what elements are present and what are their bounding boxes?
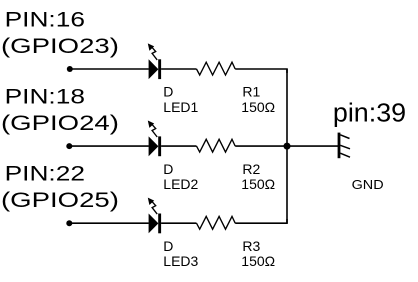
svg-text:LED2: LED2 — [163, 176, 198, 192]
wire bus to ground — [287, 145, 338, 147]
label R2 150ohm — [241, 161, 275, 192]
wire R1 to bus (with corner) — [235, 69, 287, 73]
label D LED2 — [163, 161, 198, 192]
svg-text:150Ω: 150Ω — [241, 176, 275, 192]
svg-text:150Ω: 150Ω — [241, 253, 275, 269]
svg-text:PIN:16: PIN:16 — [5, 8, 85, 32]
LED D LED3 — [148, 198, 161, 234]
svg-text:pin:39: pin:39 — [333, 98, 406, 127]
svg-text:150Ω: 150Ω — [241, 99, 275, 115]
resistor R2 — [197, 139, 236, 152]
svg-text:GND: GND — [352, 178, 384, 192]
svg-text:D: D — [163, 84, 173, 100]
wire R2 to bus — [235, 145, 287, 147]
node PIN:16 label — [1, 8, 119, 58]
node PIN:22 label — [1, 162, 119, 212]
resistor R1 — [197, 62, 236, 75]
wire LED2 cathode to R2 — [161, 145, 196, 147]
svg-text:LED1: LED1 — [163, 99, 198, 115]
label D LED3 — [163, 238, 198, 269]
wire LED3 cathode to R3 — [161, 222, 196, 224]
node pin:39 label — [333, 98, 406, 127]
node PIN:18 label — [1, 85, 119, 135]
svg-text:D: D — [163, 161, 173, 177]
svg-text:(GPIO23): (GPIO23) — [1, 35, 119, 58]
junction dot bus to GND — [284, 143, 291, 150]
junction dot GPIO25 — [66, 220, 72, 226]
label R3 150ohm — [241, 238, 275, 269]
svg-text:(GPIO24): (GPIO24) — [1, 112, 119, 135]
wire LED1 cathode to R1 — [161, 68, 196, 70]
junction dot GPIO23 — [67, 66, 73, 72]
svg-text:R1: R1 — [242, 84, 260, 100]
LED D LED2 — [148, 121, 161, 157]
wire GPIO25 to LED3 anode — [69, 222, 149, 224]
label D LED1 — [163, 84, 198, 115]
wire GPIO23 to LED1 anode — [70, 68, 149, 70]
resistor R3 — [197, 216, 236, 229]
svg-text:R3: R3 — [242, 238, 260, 254]
wire R3 to bus (with corner) — [235, 219, 287, 223]
junction dot GPIO24 — [66, 143, 72, 149]
svg-text:D: D — [163, 238, 173, 254]
svg-text:(GPIO25): (GPIO25) — [1, 189, 119, 212]
wire right vertical bus — [286, 69, 288, 223]
ground symbol GND — [339, 133, 350, 159]
LED D LED1 — [148, 43, 161, 79]
label R1 150ohm — [241, 84, 275, 115]
svg-text:R2: R2 — [242, 161, 260, 177]
wire GPIO24 to LED2 anode — [69, 145, 149, 147]
svg-text:PIN:18: PIN:18 — [5, 85, 85, 109]
svg-text:LED3: LED3 — [163, 253, 198, 269]
svg-text:PIN:22: PIN:22 — [5, 162, 85, 186]
